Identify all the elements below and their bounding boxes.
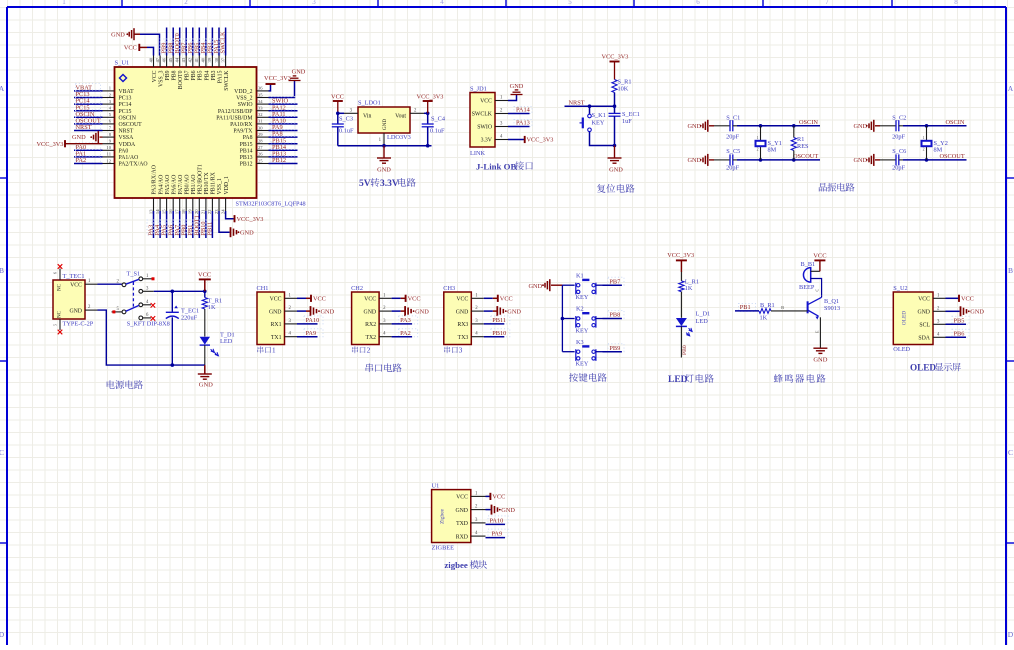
svg-text:18: 18 bbox=[181, 209, 186, 214]
svg-text:LED: LED bbox=[696, 318, 709, 325]
svg-text:NC: NC bbox=[58, 283, 63, 291]
capacitor S_C4 0.1uF bbox=[422, 113, 446, 145]
svg-text:L_D1: L_D1 bbox=[696, 311, 711, 318]
wire net PB8 bbox=[172, 28, 174, 56]
wire net PB12 bbox=[269, 156, 298, 164]
power GND at CH3 pin 2 bbox=[484, 306, 522, 316]
U1 pin 12 PA2/TX/AO bbox=[103, 158, 148, 167]
U1 pin 36 VDD_2 bbox=[234, 86, 268, 95]
CH2 pin 4 bbox=[379, 332, 392, 337]
svg-text:SWIO: SWIO bbox=[477, 125, 492, 131]
svg-text:K2: K2 bbox=[576, 306, 584, 313]
svg-text:GND: GND bbox=[69, 308, 82, 314]
net label PA9 bbox=[306, 330, 317, 337]
svg-text:GND: GND bbox=[688, 123, 702, 130]
svg-text:VSS_1: VSS_1 bbox=[217, 178, 223, 195]
net label PA15 bbox=[213, 39, 221, 54]
CH1 pin 2 bbox=[285, 306, 298, 311]
crystal S_Y2 8M bbox=[922, 126, 948, 160]
svg-text:S_K1: S_K1 bbox=[592, 112, 606, 119]
wire net PC14 bbox=[74, 97, 103, 105]
svg-text:GND: GND bbox=[377, 167, 391, 174]
U1 pin 35 VSS_2 bbox=[236, 92, 268, 101]
capacitor T_EC1 220uF bbox=[166, 291, 199, 365]
net label PB14 bbox=[272, 144, 287, 151]
svg-text:VCC: VCC bbox=[961, 296, 974, 303]
wire net PB9 bbox=[166, 28, 168, 56]
svg-text:OLED: OLED bbox=[910, 363, 936, 373]
net label OSCOUT bbox=[793, 153, 818, 160]
wire net PC13 bbox=[74, 90, 103, 98]
U1 pin 21 PB10/TX bbox=[201, 171, 210, 214]
title serial circuit bbox=[366, 363, 402, 372]
U1 pin 15 PA5/AO bbox=[161, 175, 170, 214]
svg-text:GND: GND bbox=[854, 123, 868, 130]
svg-text:35: 35 bbox=[258, 92, 263, 97]
comment STM32F103C8T6_LQFP48 bbox=[236, 201, 306, 208]
net label PA9 bbox=[272, 124, 283, 131]
power GND at U2 pin 2 bbox=[946, 306, 985, 316]
power VCC_3V3 at U1 pin 24 VDD_1 bbox=[226, 211, 264, 223]
net label PA8 bbox=[272, 131, 283, 138]
svg-text:S_C5: S_C5 bbox=[726, 148, 740, 155]
svg-text:OSCOUT: OSCOUT bbox=[793, 153, 818, 160]
power VCC_3V3 at JD1 pin 4 bbox=[508, 136, 553, 144]
svg-text:VCC_3V3: VCC_3V3 bbox=[527, 137, 554, 144]
comment LINK bbox=[470, 150, 485, 157]
svg-text:CH3: CH3 bbox=[443, 285, 455, 292]
power VCC at CH2 pin 1 bbox=[392, 295, 421, 303]
svg-text:PB5: PB5 bbox=[954, 317, 965, 324]
svg-text:OSCOUT: OSCOUT bbox=[940, 153, 965, 160]
svg-text:NRST: NRST bbox=[76, 124, 92, 131]
svg-text:NRST: NRST bbox=[119, 129, 134, 135]
wire ground rail bbox=[338, 144, 432, 148]
svg-text:GND: GND bbox=[321, 308, 335, 315]
svg-text:S_R1: S_R1 bbox=[618, 78, 632, 85]
wire net PA0 bbox=[74, 143, 103, 151]
net label PB6 bbox=[186, 39, 194, 54]
U2 pin 2 bbox=[933, 306, 946, 311]
JD1 pin 3 bbox=[495, 122, 508, 127]
title crystal circuit bbox=[819, 183, 855, 192]
comment serial port 2 bbox=[352, 346, 371, 354]
svg-text:K1: K1 bbox=[576, 272, 584, 279]
wire net PA1 bbox=[74, 149, 103, 157]
svg-text:20: 20 bbox=[194, 209, 199, 214]
svg-text:3: 3 bbox=[459, 347, 463, 355]
svg-text:PB0: PB0 bbox=[682, 345, 688, 355]
switch T_S1 S_KFT DIP-8X8 bbox=[112, 271, 156, 321]
svg-text:RES: RES bbox=[797, 143, 809, 150]
capacitor S_C5 20pF bbox=[714, 148, 740, 171]
wire R1 to node bbox=[613, 93, 617, 108]
comment serial port 1 bbox=[257, 346, 276, 354]
svg-text:S_KFT DIP-8X8: S_KFT DIP-8X8 bbox=[127, 320, 170, 327]
svg-text:17: 17 bbox=[175, 209, 180, 214]
svg-text:6: 6 bbox=[53, 272, 58, 274]
svg-text:PB1: PB1 bbox=[740, 304, 751, 311]
U1 pin 30 PA9/TX bbox=[233, 125, 268, 134]
wire net PB11 bbox=[211, 211, 213, 238]
wire net PA9 bbox=[297, 329, 323, 337]
svg-text:23: 23 bbox=[214, 209, 219, 214]
svg-text:VCC: VCC bbox=[270, 297, 282, 303]
wire VCC node to Vin bbox=[336, 112, 344, 116]
svg-text:TYPE-C-2P: TYPE-C-2P bbox=[63, 320, 94, 327]
U1 pin 13 PA3/RX/AO bbox=[148, 165, 157, 214]
power GND reset bbox=[608, 144, 624, 174]
zigbee pin 4 bbox=[471, 531, 486, 536]
net label PC13 bbox=[76, 91, 90, 98]
U1 pin 42 PB6 bbox=[188, 56, 198, 81]
svg-text:PA11/USB/DM: PA11/USB/DM bbox=[216, 115, 252, 121]
svg-text:GND: GND bbox=[507, 308, 521, 315]
CH3 pin 3 bbox=[471, 319, 484, 324]
U1 pin 28 PB15 bbox=[240, 139, 269, 148]
svg-text:GND: GND bbox=[364, 309, 377, 315]
wire net OSCIN bbox=[903, 124, 967, 128]
power VCC at zigbee pin 1 bbox=[486, 493, 506, 501]
power GND keys bbox=[529, 279, 563, 291]
svg-text:5: 5 bbox=[568, 0, 572, 6]
LDO1 pin 1 GND bbox=[379, 133, 384, 146]
svg-text:6: 6 bbox=[696, 0, 700, 6]
svg-text:2: 2 bbox=[923, 148, 925, 152]
transistor B_Q1 S9013 bbox=[808, 289, 841, 349]
capacitor S_EC1 1uF bbox=[609, 106, 640, 145]
svg-text:PA13: PA13 bbox=[516, 120, 530, 127]
wire net PA6 bbox=[172, 211, 174, 238]
svg-text:PA5/AO: PA5/AO bbox=[165, 175, 171, 195]
U1 pin 34 SWIO bbox=[238, 99, 269, 108]
svg-text:0.1uF: 0.1uF bbox=[430, 128, 445, 135]
svg-text:S_C4: S_C4 bbox=[431, 116, 446, 123]
wire net PA2 bbox=[74, 156, 103, 164]
U1 pin 9 VDDA bbox=[103, 139, 137, 148]
svg-text:41: 41 bbox=[194, 57, 199, 62]
net label PA7 bbox=[173, 220, 181, 236]
net label PB12 bbox=[272, 157, 286, 164]
svg-text:Vout: Vout bbox=[395, 114, 406, 120]
wire net PA13 bbox=[508, 120, 532, 127]
svg-text:48: 48 bbox=[148, 57, 153, 62]
wire net OSCIN bbox=[737, 124, 820, 128]
svg-text:VDD_2: VDD_2 bbox=[234, 89, 252, 95]
wire net PB14 bbox=[269, 143, 298, 151]
wire net PA10 zigbee bbox=[486, 516, 509, 525]
svg-text:1K: 1K bbox=[685, 285, 693, 292]
title reset circuit bbox=[597, 184, 635, 193]
wire net NRST bbox=[74, 123, 103, 131]
svg-text:PA2: PA2 bbox=[76, 157, 87, 164]
net label PA4 bbox=[154, 220, 162, 236]
svg-text:PB3: PB3 bbox=[211, 70, 217, 80]
svg-text:PB14: PB14 bbox=[240, 148, 253, 154]
svg-text:PC13: PC13 bbox=[119, 96, 132, 102]
wire net PA10 bbox=[297, 316, 323, 324]
svg-text:PB2/BOOT1: PB2/BOOT1 bbox=[198, 164, 204, 194]
svg-text:VCC: VCC bbox=[918, 297, 930, 303]
wire net PA9 zigbee bbox=[486, 529, 509, 538]
svg-text:VDDA: VDDA bbox=[119, 142, 137, 148]
power VCC at CH1 pin 1 bbox=[297, 295, 326, 303]
svg-text:VCC: VCC bbox=[456, 495, 468, 501]
svg-text:T_TEC1: T_TEC1 bbox=[63, 273, 85, 280]
comment serial port 3 bbox=[444, 346, 463, 354]
U1 pin 40 PB4 bbox=[201, 56, 211, 81]
buzzer B_B1 BEEP bbox=[799, 261, 822, 295]
net label VBAT bbox=[76, 85, 93, 92]
svg-text:34: 34 bbox=[258, 99, 263, 104]
svg-text:PB7: PB7 bbox=[609, 278, 620, 285]
svg-text:VCC: VCC bbox=[198, 272, 211, 279]
svg-text:24: 24 bbox=[220, 209, 225, 214]
title 5V to 3.3V circuit bbox=[359, 178, 416, 189]
svg-text:B: B bbox=[1008, 266, 1013, 275]
wire net PB15 bbox=[269, 136, 298, 144]
wire net PA7 bbox=[179, 211, 181, 238]
svg-text:J-Link OB: J-Link OB bbox=[476, 161, 516, 171]
CH2 pin 2 bbox=[379, 306, 392, 311]
svg-text:B: B bbox=[0, 266, 4, 275]
svg-text:0.1uF: 0.1uF bbox=[339, 128, 354, 135]
svg-text:PB6: PB6 bbox=[954, 330, 965, 337]
U1 pin 32 PA11/USB/DM bbox=[216, 112, 268, 121]
svg-text:44: 44 bbox=[175, 57, 180, 62]
svg-text:VCC: VCC bbox=[456, 297, 468, 303]
wire net PB7 bbox=[185, 28, 187, 56]
net label PA3 bbox=[400, 317, 411, 324]
net label PA3 bbox=[147, 220, 155, 236]
svg-text:PA15: PA15 bbox=[217, 70, 223, 83]
net label PB11 bbox=[206, 220, 214, 236]
wire net PB7 bbox=[603, 277, 625, 285]
U1 pin 37 SWCLK bbox=[220, 56, 230, 91]
wire TEC1 GND down rail bbox=[98, 310, 205, 367]
svg-text:PA12/USB/DP: PA12/USB/DP bbox=[218, 109, 253, 115]
svg-text:SWIO: SWIO bbox=[238, 102, 253, 108]
svg-text:PB15: PB15 bbox=[240, 142, 253, 148]
svg-text:D: D bbox=[1008, 630, 1014, 639]
power GND buzzer bbox=[813, 348, 827, 363]
svg-text:OSCIN: OSCIN bbox=[799, 119, 818, 126]
power VCC power-circuit bbox=[198, 272, 211, 292]
svg-text:PA2/TX/AO: PA2/TX/AO bbox=[119, 162, 148, 168]
svg-text:21: 21 bbox=[201, 209, 206, 214]
svg-text:PB11: PB11 bbox=[492, 317, 506, 324]
wire Vout node bbox=[424, 112, 430, 116]
comment LDO3V3 bbox=[387, 134, 411, 141]
svg-text:S_EC1: S_EC1 bbox=[622, 111, 640, 118]
svg-text:RX3: RX3 bbox=[457, 322, 468, 328]
pushbutton K1 KEY bbox=[562, 272, 602, 301]
comment ZIGBEE bbox=[432, 545, 455, 552]
comment OLED bbox=[893, 346, 910, 353]
power VCC_3V3 LED bbox=[667, 252, 694, 272]
wire net NRST bbox=[565, 104, 615, 108]
svg-text:220uF: 220uF bbox=[181, 314, 198, 321]
svg-text:KEY: KEY bbox=[592, 120, 605, 127]
svg-text:12: 12 bbox=[106, 158, 111, 163]
svg-text:OSCIN: OSCIN bbox=[946, 119, 965, 126]
wire net PB4 bbox=[205, 28, 207, 56]
wire net PA4 bbox=[159, 211, 161, 238]
pushbutton K2 KEY bbox=[562, 306, 602, 335]
svg-text:37: 37 bbox=[220, 57, 225, 62]
svg-text:S_C3: S_C3 bbox=[339, 116, 353, 123]
U1 pin 43 PB7 bbox=[181, 56, 191, 81]
wire net PB3 bbox=[211, 28, 213, 56]
svg-text:VCC: VCC bbox=[70, 282, 82, 288]
wire net PB5 bbox=[946, 316, 970, 324]
svg-text:RXD: RXD bbox=[456, 534, 468, 540]
power VCC at U1 pin 48 bbox=[124, 44, 154, 56]
svg-text:3.3V: 3.3V bbox=[380, 179, 399, 189]
svg-text:PB11/RX: PB11/RX bbox=[211, 171, 217, 194]
svg-text:20pF: 20pF bbox=[726, 133, 739, 140]
svg-text:VCC_3V3: VCC_3V3 bbox=[667, 252, 694, 259]
power GND at U1 pin 23 VSS_1 bbox=[219, 211, 254, 237]
svg-text:NRST: NRST bbox=[569, 99, 585, 106]
svg-text:B: B bbox=[781, 305, 784, 310]
net label PB9 bbox=[609, 345, 620, 352]
U1 pin 1 VBAT bbox=[103, 86, 135, 95]
svg-text:CH1: CH1 bbox=[257, 285, 269, 292]
svg-text:S_U1: S_U1 bbox=[115, 60, 130, 67]
svg-text:TX3: TX3 bbox=[458, 335, 469, 341]
wire net PB10 bbox=[484, 329, 510, 337]
svg-text:PA10: PA10 bbox=[306, 317, 320, 324]
wire switch pin3 to VCC rail bbox=[154, 290, 207, 294]
svg-text:LED: LED bbox=[220, 338, 233, 345]
svg-text:1: 1 bbox=[757, 136, 759, 140]
svg-text:VCC: VCC bbox=[331, 94, 344, 101]
power VCC at U2 pin 1 bbox=[946, 295, 974, 303]
net label PA10 zigbee bbox=[490, 517, 504, 524]
svg-text:5: 5 bbox=[53, 324, 58, 326]
JD1 pin 2 bbox=[495, 109, 508, 114]
connector CH3 body bbox=[444, 292, 472, 345]
power GND below LDO bbox=[377, 146, 391, 174]
svg-text:B_R1: B_R1 bbox=[760, 302, 775, 309]
svg-text:OLED: OLED bbox=[902, 311, 908, 325]
svg-text:PC15: PC15 bbox=[119, 109, 132, 115]
svg-text:22: 22 bbox=[207, 209, 212, 214]
power VCC at CH3 pin 1 bbox=[484, 295, 513, 303]
svg-text:GND: GND bbox=[456, 309, 469, 315]
svg-text:47: 47 bbox=[155, 57, 160, 62]
svg-text:KEY: KEY bbox=[576, 361, 589, 368]
svg-text:B_B1: B_B1 bbox=[801, 261, 816, 268]
net label PB8 bbox=[609, 312, 620, 319]
svg-text:1: 1 bbox=[923, 136, 925, 140]
wire net PA11 bbox=[269, 110, 298, 118]
svg-text:PA8: PA8 bbox=[243, 135, 253, 141]
connector T_TEC1 TYPE-C body bbox=[53, 280, 85, 319]
net label PB7 bbox=[609, 278, 620, 285]
svg-text:T_S1: T_S1 bbox=[127, 271, 141, 278]
svg-text:10K: 10K bbox=[618, 85, 629, 92]
svg-text:1: 1 bbox=[272, 347, 276, 355]
power GND at zigbee pin 2 bbox=[486, 505, 516, 515]
net label PB11 bbox=[492, 317, 506, 324]
svg-text:36: 36 bbox=[258, 86, 263, 91]
wire net PA2 bbox=[392, 329, 418, 337]
svg-text:7: 7 bbox=[825, 0, 829, 6]
U1 pin 26 PB13 bbox=[240, 152, 269, 161]
net label PA11 bbox=[272, 111, 286, 118]
LED T_D1 bbox=[200, 309, 235, 365]
wire net PB6 bbox=[946, 329, 970, 337]
power GND at U1 pin 47 bbox=[111, 28, 159, 55]
U1 pin 18 PB0/AO bbox=[181, 175, 190, 215]
U1 pin 41 PB5 bbox=[194, 56, 204, 81]
net label PB1 bbox=[740, 304, 751, 311]
svg-text:GND: GND bbox=[813, 357, 827, 364]
U1 pin 46 PB9 bbox=[161, 56, 171, 81]
svg-text:VCC_3V3: VCC_3V3 bbox=[237, 216, 264, 223]
svg-text:15: 15 bbox=[161, 209, 166, 214]
title power circuit bbox=[107, 380, 143, 389]
svg-text:KEY: KEY bbox=[576, 327, 589, 334]
svg-text:PA0: PA0 bbox=[119, 148, 129, 154]
svg-text:16: 16 bbox=[168, 209, 173, 214]
net label PC14 bbox=[76, 98, 91, 105]
U1 pin 8 VSSA bbox=[103, 132, 135, 141]
resistor B_R1 1K bbox=[759, 302, 808, 321]
svg-text:SWCLK: SWCLK bbox=[472, 112, 493, 118]
net label PB10 bbox=[492, 330, 506, 337]
svg-text:ZIGBEE: ZIGBEE bbox=[432, 545, 455, 552]
svg-text:CH2: CH2 bbox=[351, 285, 363, 292]
svg-text:LDO3V3: LDO3V3 bbox=[387, 134, 411, 141]
wire net OSCOUT bbox=[74, 116, 103, 124]
svg-text:C: C bbox=[814, 289, 819, 292]
designator S_U1 bbox=[115, 60, 130, 67]
svg-text:PB0/AO: PB0/AO bbox=[184, 175, 190, 195]
LED L_D1 bbox=[676, 292, 710, 336]
title LED circuit bbox=[668, 374, 714, 385]
CH2 pin 3 bbox=[379, 319, 392, 324]
svg-text:VSS_2: VSS_2 bbox=[236, 96, 253, 102]
title OLED display bbox=[910, 363, 961, 373]
svg-text:zigbee: zigbee bbox=[444, 560, 468, 570]
power GND at S_C2 bbox=[854, 120, 881, 132]
svg-text:GND: GND bbox=[415, 308, 429, 315]
svg-text:VCC: VCC bbox=[124, 45, 137, 52]
svg-text:SCL: SCL bbox=[919, 323, 930, 329]
designator CH1 bbox=[257, 285, 269, 292]
CH1 pin 1 bbox=[285, 293, 298, 298]
wire net PB5 bbox=[198, 28, 200, 56]
title buzzer circuit bbox=[774, 374, 826, 383]
svg-text:GND: GND bbox=[199, 382, 213, 389]
svg-text:28: 28 bbox=[258, 139, 263, 144]
power GND at U1 pin 8 VSSA bbox=[72, 131, 103, 143]
svg-text:PA7/AO: PA7/AO bbox=[178, 175, 184, 195]
U2 pin 3 bbox=[933, 319, 946, 324]
svg-text:PB13: PB13 bbox=[240, 155, 253, 161]
wire net OSCOUT bbox=[903, 158, 967, 162]
title J-Link OB interface bbox=[476, 161, 533, 171]
U1 pin 47 VSS_3 bbox=[155, 56, 165, 87]
net label PA6 bbox=[167, 220, 175, 236]
U1 pin 19 PB1/AO bbox=[188, 175, 197, 215]
svg-text:3.3V: 3.3V bbox=[481, 138, 493, 144]
svg-text:46: 46 bbox=[161, 57, 166, 62]
resistor T_R1 1K bbox=[202, 291, 222, 311]
